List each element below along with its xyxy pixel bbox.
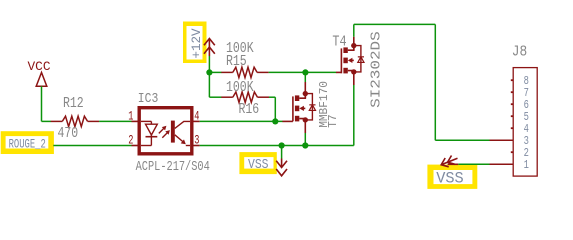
junction T7 source (302, 142, 308, 148)
net label +12V (highlighted, rotated) (183, 22, 207, 64)
resistor R16 100K (221, 80, 269, 118)
transistor T4 SI2302DS (332, 31, 384, 108)
wire R15 to T4 gate junction (269, 71, 306, 73)
svg-text:VSS: VSS (436, 170, 464, 188)
wire VCC to R12 (42, 86, 52, 121)
pin 7 (511, 91, 514, 93)
wire T7 drain to R15 junction (304, 72, 306, 91)
supply +12V (204, 39, 215, 57)
svg-text:2: 2 (128, 133, 133, 147)
svg-text:+12V: +12V (190, 28, 204, 59)
wire IC3 pin4 to T7 gate (200, 120, 283, 122)
svg-text:T4: T4 (332, 32, 346, 50)
svg-text:VSS: VSS (248, 157, 269, 173)
wire ROUGE_2 to IC3 pin 2 (53, 145, 131, 147)
optocoupler IC3 ACPL-217/S04 (128, 92, 210, 175)
junction +12V/R15/R16 (206, 69, 212, 75)
svg-text:1: 1 (524, 158, 529, 172)
pin 1 (490, 163, 514, 165)
junction R15/T7 drain/T4 gate (302, 69, 308, 75)
svg-text:3: 3 (194, 133, 199, 147)
pin 2 (511, 151, 514, 153)
wire T4 drain up (353, 24, 355, 43)
connector J8 (490, 42, 538, 176)
junction R16/pin4 (272, 118, 278, 124)
wire R16 to pin4 net (269, 97, 275, 121)
svg-text:4: 4 (194, 109, 199, 123)
pin 8 (511, 79, 514, 81)
svg-text:100K: 100K (226, 41, 254, 57)
supply VSS left (276, 146, 287, 176)
svg-text:1: 1 (128, 109, 133, 123)
svg-text:ROUGE_2: ROUGE_2 (9, 137, 46, 151)
svg-text:SI2302DS: SI2302DS (368, 31, 384, 108)
svg-text:ACPL-217/S04: ACPL-217/S04 (136, 159, 210, 175)
pin 3 (490, 139, 514, 141)
pin 4 (511, 127, 514, 129)
supply VSS right (rotated) (441, 156, 458, 167)
svg-text:J8: J8 (512, 42, 527, 60)
junction VSS tap (279, 142, 285, 148)
net label VSS (highlighted) right (427, 165, 477, 189)
wire +12V down to R16 (209, 72, 221, 97)
resistor R15 100K (221, 41, 268, 78)
wire T4 drain to J8 pin 3 (354, 24, 490, 140)
transistor T7 MMBF170 (282, 81, 340, 128)
svg-text:IC3: IC3 (138, 92, 159, 107)
svg-text:R12: R12 (63, 96, 84, 112)
pin 6 (511, 103, 514, 105)
wire +12V to R15 (209, 71, 221, 73)
resistor R12 470 (51, 96, 99, 142)
svg-text:T7: T7 (326, 114, 340, 127)
net label VSS (highlighted) left (239, 152, 276, 174)
pin 5 (511, 115, 514, 117)
wire +12V junction (208, 56, 210, 72)
wire junction to T4 gate (305, 71, 336, 73)
wire IC3 pin3 to T4 source net (200, 145, 354, 147)
svg-text:VCC: VCC (28, 59, 51, 74)
wire R12 to IC3 pin 1 (99, 120, 132, 122)
svg-text:470: 470 (58, 126, 79, 142)
supply VCC (28, 59, 51, 86)
wire T4 source down to row (353, 75, 355, 146)
wire VSS to J8 pin 1 (458, 163, 489, 165)
svg-text:R16: R16 (239, 102, 260, 118)
wire T7 source down (304, 123, 306, 146)
svg-text:100K: 100K (226, 80, 254, 96)
net label ROUGE_2 (highlighted) (1, 131, 54, 154)
